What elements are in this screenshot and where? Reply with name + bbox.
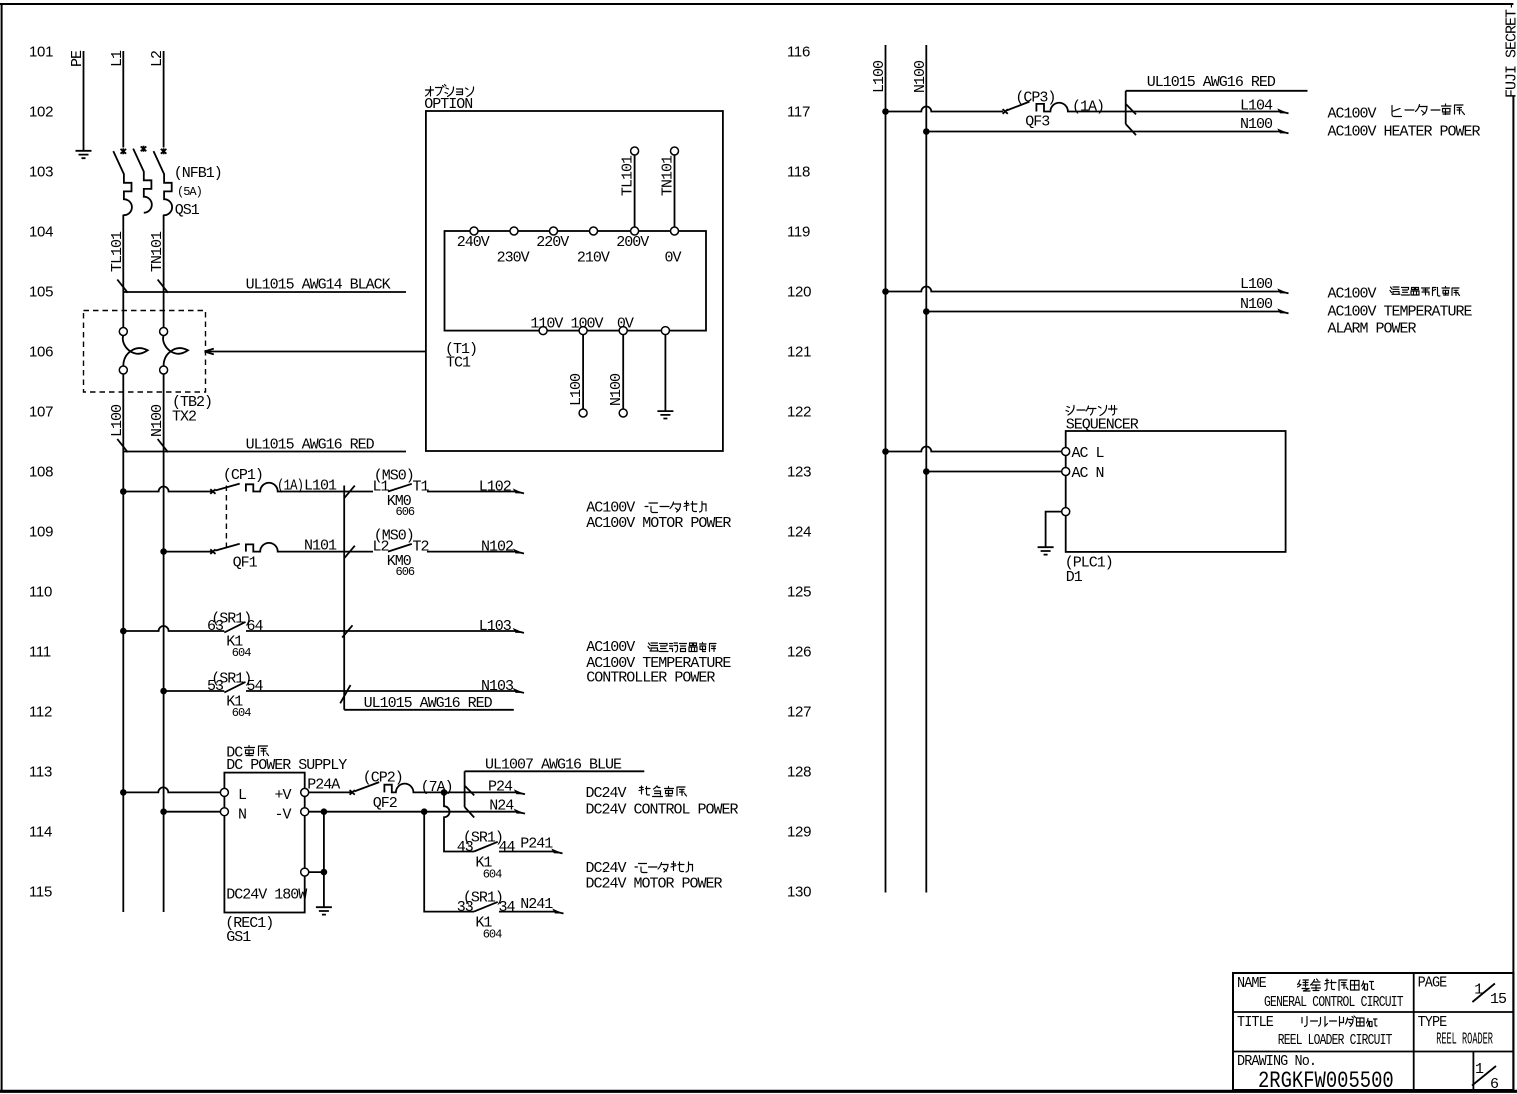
svg-text:102: 102 (29, 104, 53, 121)
svg-text:FUJI SECRET-: FUJI SECRET- (1504, 2, 1517, 98)
wire cable bundle vertical left (343, 486, 345, 710)
wire slash L104 (1126, 104, 1136, 115)
svg-text:UL1015 AWG14 BLACK: UL1015 AWG14 BLACK (246, 277, 391, 294)
svg-text:130: 130 (787, 884, 811, 901)
node line number 123 (787, 464, 811, 481)
wire arrow from option to TB2 (205, 349, 426, 355)
node PE label (69, 50, 86, 67)
node L102 label (479, 479, 511, 496)
svg-text:(CP1): (CP1) (223, 467, 263, 484)
node 240V label (457, 234, 490, 251)
node AC100V MOTOR POWER text (586, 515, 731, 532)
svg-text:P241: P241 (520, 836, 553, 853)
node 606 label row 108 (396, 505, 415, 519)
wire TL101 lead (634, 155, 636, 227)
node OPTION label (424, 96, 472, 113)
terminal block TB2 dashed box (84, 311, 206, 393)
svg-text:UL1015 AWG16 RED: UL1015 AWG16 RED (364, 695, 493, 712)
svg-text:UL1015 AWG16 RED: UL1015 AWG16 RED (246, 437, 375, 454)
node 33 label (457, 899, 474, 916)
wire ground tap lead (664, 335, 666, 411)
svg-text:604: 604 (483, 927, 502, 941)
node AC100V heater power JP text (1328, 104, 1465, 123)
node line number 110 (29, 584, 52, 601)
node TX2 label (172, 409, 196, 426)
svg-text:110V: 110V (530, 315, 563, 332)
node QF3 label (1025, 114, 1050, 131)
svg-text:QF1: QF1 (233, 555, 258, 572)
title block horizontal divider 1 (1233, 1011, 1513, 1013)
node L100 label right (871, 60, 888, 93)
node REEL ROADER label (1436, 1031, 1493, 1050)
svg-text:L102: L102 (479, 479, 511, 496)
node L1 label (373, 479, 390, 496)
node FUJI SECRET marking (1504, 2, 1517, 98)
node line number 119 (787, 224, 810, 241)
svg-text:200V: 200V (616, 234, 649, 251)
svg-text:126: 126 (787, 644, 811, 661)
node line number 113 (29, 764, 52, 781)
node L1 label (109, 50, 126, 67)
node TITLE label (1237, 1014, 1273, 1031)
svg-text:L: L (238, 787, 247, 804)
node TL101 label (109, 231, 126, 272)
node SR1 label 33 (463, 890, 503, 907)
wire slash N24 (465, 807, 475, 818)
node AC100V motor power JP text (586, 500, 706, 517)
node L100 label row 120 (1240, 276, 1273, 293)
sequencer D1 box (1066, 431, 1286, 552)
node arrow N100 row 117 (1277, 128, 1288, 133)
node 43 label (457, 839, 474, 856)
wire L100 left vertical (122, 374, 124, 912)
terminal TC1 230V (510, 227, 518, 235)
svg-text:604: 604 (232, 706, 251, 720)
svg-text:L100: L100 (109, 404, 126, 437)
svg-text:124: 124 (787, 524, 811, 541)
svg-text:GS1: GS1 (226, 929, 251, 946)
node 1A label row 108 (277, 477, 303, 494)
wire L100 alarm branch with hop (886, 287, 1282, 292)
node junction N100 row 123 (923, 468, 930, 475)
node 44 label (499, 839, 516, 856)
node QF1 label (233, 555, 258, 572)
svg-text:N: N (238, 806, 246, 823)
contact MS0 L2-T2 (388, 544, 516, 552)
node line number 102 (29, 104, 53, 121)
node page number 1/15 (1472, 981, 1507, 1008)
terminal GS1 -V (301, 808, 309, 816)
node 0V top label (665, 249, 682, 266)
svg-text:N103: N103 (481, 678, 514, 695)
svg-text:(1A): (1A) (1072, 99, 1104, 116)
node junction L100 row 120 (882, 288, 889, 295)
node K1 label row 111 (226, 634, 243, 651)
node arrow L104 (1277, 108, 1288, 113)
svg-text:240V: 240V (457, 234, 490, 251)
svg-text:AC100V: AC100V (586, 639, 635, 656)
node 604 label 43 (483, 867, 502, 881)
wire cable row 108 (123, 451, 406, 453)
svg-text:P24A: P24A (307, 776, 340, 793)
svg-text:33: 33 (457, 899, 474, 916)
wire slash row 112 bundle (340, 685, 350, 703)
node arrow P24 (514, 789, 525, 794)
node L101 label (304, 478, 337, 495)
node PAGE label (1418, 975, 1447, 992)
node line number 121 (787, 344, 811, 361)
terminal TC1 200V (631, 227, 639, 235)
svg-text:AC100V TEMPERATURE: AC100V TEMPERATURE (1328, 304, 1473, 321)
svg-text:104: 104 (29, 224, 53, 241)
wire slash row 108 bundle (345, 486, 355, 498)
svg-text:108: 108 (29, 464, 53, 481)
ground sequencer (1038, 547, 1054, 554)
ground PE (76, 151, 92, 158)
svg-text:T2: T2 (413, 539, 429, 556)
svg-text:CONTROLLER POWER: CONTROLLER POWER (586, 670, 715, 687)
svg-text:AC N: AC N (1072, 465, 1104, 482)
terminal TC1 ground tap (661, 327, 669, 335)
wire slash marks row 105 (117, 280, 168, 293)
svg-text:TX2: TX2 (172, 409, 196, 426)
terminal GS1 +V (301, 788, 309, 796)
node 230V label (497, 249, 530, 266)
svg-text:120: 120 (787, 284, 811, 301)
svg-text:NAME: NAME (1237, 975, 1266, 992)
node QS1 label (175, 202, 200, 219)
svg-text:604: 604 (232, 646, 251, 660)
node DC24V motor power JP text (586, 860, 693, 877)
node reel loader circuit JP title (1302, 1016, 1377, 1027)
svg-text:N24: N24 (489, 798, 514, 815)
node N24 label (489, 798, 514, 815)
wire N100 to SR1 53 (164, 690, 225, 692)
node line number 106 (29, 344, 53, 361)
node line number 112 (29, 704, 52, 721)
wire slash marks row 108 (117, 439, 168, 452)
node AC100V temperature controller JP text (586, 639, 716, 656)
svg-text:(NFB1): (NFB1) (174, 165, 222, 182)
node line number 129 (787, 824, 811, 841)
node junction P24 branch (441, 789, 448, 796)
node 200V label (616, 234, 649, 251)
node arrow N241 (552, 909, 563, 914)
svg-text:(7A): (7A) (421, 779, 453, 796)
svg-text:L100: L100 (871, 60, 888, 93)
svg-text:QS1: QS1 (175, 202, 200, 219)
wire FG to ground (309, 812, 324, 907)
node AC100V HEATER POWER text (1328, 124, 1481, 141)
svg-text:N100: N100 (912, 60, 929, 93)
node general control circuit JP title (1298, 979, 1375, 991)
node line number 108 (29, 464, 53, 481)
svg-text:UL1015 AWG16 RED: UL1015 AWG16 RED (1147, 74, 1276, 91)
svg-text:114: 114 (29, 824, 52, 841)
title block vertical divider 2 (1472, 1052, 1474, 1091)
svg-text:220V: 220V (536, 234, 569, 251)
svg-text:230V: 230V (497, 249, 530, 266)
svg-text:TYPE: TYPE (1418, 1014, 1447, 1031)
terminal TB2 pole 1 (119, 328, 147, 375)
wire slash P24 (465, 786, 475, 796)
svg-text:P24: P24 (488, 778, 513, 795)
svg-text:122: 122 (787, 404, 811, 421)
node line number 107 (29, 404, 53, 421)
svg-text:63: 63 (207, 618, 224, 635)
node 100V label (571, 315, 604, 332)
svg-text:N101: N101 (304, 538, 337, 555)
svg-text:DC POWER SUPPLY: DC POWER SUPPLY (226, 757, 347, 774)
wire L1 (122, 51, 124, 148)
node N100 label row 117 (1240, 116, 1273, 133)
wire L100 to AC L with hop (886, 447, 1062, 452)
node CP1 label (223, 467, 263, 484)
svg-text:119: 119 (787, 224, 810, 241)
wire N100 lead (622, 335, 624, 409)
node junction L100 row 123 (882, 448, 889, 455)
wire PE (83, 51, 85, 150)
node 64 label (247, 618, 264, 635)
wire slash row 111 bundle (342, 625, 352, 637)
svg-text:L1: L1 (109, 50, 126, 67)
wire P24 down to SR1 43 with hop (444, 792, 474, 851)
node GS1 label (226, 929, 251, 946)
node T1 label (445, 341, 477, 358)
node SEQUENCER label (1066, 417, 1139, 434)
svg-text:43: 43 (457, 839, 474, 856)
svg-text:L101: L101 (304, 478, 337, 495)
node line number 101 (29, 44, 53, 61)
node REEL LOADER CIRCUIT label (1278, 1032, 1393, 1049)
node line number 130 (787, 884, 811, 901)
node K1 label 43 (475, 855, 492, 872)
node CONTROLLER POWER text (586, 670, 715, 687)
node 34 label (499, 899, 516, 916)
svg-text:109: 109 (29, 524, 53, 541)
svg-text:TN101: TN101 (149, 231, 166, 272)
node DRAWING No label (1237, 1053, 1316, 1070)
node TN101 label (149, 231, 166, 272)
svg-text:129: 129 (787, 824, 811, 841)
node P24A label (307, 776, 340, 793)
node arrow L100 row 120 (1277, 288, 1288, 293)
node PLC1 label (1065, 555, 1113, 572)
node line number 114 (29, 824, 52, 841)
wire N100 left vertical (163, 374, 165, 912)
svg-text:(CP3): (CP3) (1015, 89, 1055, 106)
terminal TC1 220V (550, 227, 558, 235)
node -V terminal label (275, 806, 292, 823)
node 110V label (530, 315, 563, 332)
node MS0 label row 109 (374, 528, 414, 545)
svg-text:+V: +V (275, 787, 292, 804)
wire slash N100 row 117 (1126, 124, 1136, 135)
terminal GS1 N (220, 808, 228, 816)
svg-text:DC24V: DC24V (586, 860, 627, 877)
breaker QS1 pole 1 terminal star (121, 148, 127, 154)
wire N100 to N terminal (164, 811, 221, 813)
wire L100 to CP1 with hop (123, 487, 212, 492)
node +V terminal label (275, 787, 292, 804)
svg-text:ALARM POWER: ALARM POWER (1328, 321, 1417, 338)
terminal TN101 top (671, 147, 679, 155)
svg-text:116: 116 (787, 44, 810, 61)
terminal TB2 pole 2 (160, 328, 188, 375)
svg-text:N100: N100 (149, 404, 166, 437)
breaker QS1 pole 1 blade and body (113, 151, 132, 287)
node N103 label (481, 678, 514, 695)
node DC POWER SUPPLY label (226, 757, 347, 774)
terminal L100 lead end (579, 409, 587, 417)
svg-text:T1: T1 (413, 479, 430, 496)
svg-text:DC24V MOTOR POWER: DC24V MOTOR POWER (586, 876, 723, 893)
wire sequencer FG to ground (1046, 512, 1062, 547)
wire TL101 (122, 287, 124, 327)
node line number 103 (29, 164, 53, 181)
node junction N241 branch (421, 808, 428, 815)
node P24 label (488, 778, 513, 795)
node UL1015 AWG16 RED label lower (364, 695, 493, 712)
svg-text:110: 110 (29, 584, 52, 601)
svg-text:606: 606 (396, 505, 415, 519)
node N100 label left (149, 404, 166, 437)
node L2 label (373, 539, 389, 556)
wire L100 lead (582, 335, 584, 409)
node UL1015 AWG16 RED label right (1147, 74, 1276, 91)
mechanical link CP1-QF1 dashed (225, 486, 227, 550)
svg-text:TC1: TC1 (446, 355, 471, 372)
node junction N100 row 117 (923, 128, 930, 135)
wire cable bracket vertical right (1125, 91, 1127, 124)
node 54 label (247, 678, 264, 695)
node L2 label (149, 51, 166, 67)
node AC N label (1072, 465, 1104, 482)
contact SR1 33-34 (474, 902, 555, 912)
node T2 label (413, 539, 429, 556)
node SR1 label row 112 (211, 670, 251, 687)
node line number 122 (787, 404, 811, 421)
node TN101 label option (660, 155, 677, 196)
wire L100 right vertical (885, 45, 887, 893)
node arrow N103 (513, 688, 524, 693)
node L104 label (1240, 98, 1273, 115)
wire cable bracket vertical BLUE (464, 771, 466, 807)
node junction L100 row 111 (120, 628, 127, 635)
wire N24 line (309, 811, 516, 813)
svg-text:606: 606 (396, 565, 415, 579)
node 604 label 33 (483, 927, 502, 941)
contact SR1 63-64 (224, 622, 516, 633)
node junction L100 row 117 (882, 108, 889, 115)
node line number 127 (787, 704, 811, 721)
node TYPE label (1418, 1014, 1447, 1031)
node line number 111 (29, 644, 51, 661)
transformer TC1 box (445, 231, 707, 331)
breaker CP1 (210, 483, 373, 494)
svg-text:AC100V MOTOR POWER: AC100V MOTOR POWER (586, 515, 731, 532)
node line number 109 (29, 524, 53, 541)
terminal TC1 0V bottom (619, 327, 627, 335)
wire L2 (163, 51, 165, 148)
node junction N100 row 113 (160, 808, 167, 815)
node line number 124 (787, 524, 811, 541)
wire N24 down to SR1 33 (424, 812, 474, 912)
node arrow L103 (513, 628, 524, 633)
svg-text:118: 118 (787, 164, 810, 181)
svg-text:DC24V CONTROL POWER: DC24V CONTROL POWER (586, 802, 739, 819)
node line number 105 (29, 284, 53, 301)
node AC L label (1072, 445, 1105, 462)
wire L100 to CP3 with hop (886, 107, 1004, 112)
svg-text:L100: L100 (1240, 276, 1273, 293)
breaker CP3 (1003, 102, 1281, 114)
ground GS1 FG (316, 907, 332, 914)
svg-text:113: 113 (29, 764, 52, 781)
terminal TC1 210V (590, 227, 598, 235)
node L103 label (479, 618, 512, 635)
terminal TC1 100V (579, 327, 587, 335)
svg-text:QF3: QF3 (1025, 114, 1050, 131)
svg-text:125: 125 (787, 584, 811, 601)
node 5A label (177, 185, 202, 199)
node arrow N100 row 120 (1277, 308, 1288, 313)
svg-text:DC24V: DC24V (586, 785, 627, 802)
node NAME label (1237, 975, 1266, 992)
node junction N100 row 112 (160, 688, 167, 695)
node line number 128 (787, 764, 811, 781)
node P241 label (520, 836, 553, 853)
node 604 label row 112 (232, 706, 251, 720)
option box (426, 111, 723, 451)
svg-text:112: 112 (29, 704, 52, 721)
contact SR1 53-54 (224, 682, 516, 693)
svg-text:103: 103 (29, 164, 53, 181)
terminal TC1 240V (470, 227, 478, 235)
svg-text:TL101: TL101 (620, 155, 637, 196)
node 210V label (577, 249, 610, 266)
wire N100 alarm branch (926, 311, 1281, 313)
node option JP label (426, 85, 474, 97)
power supply GS1 box (224, 773, 304, 913)
node line number 104 (29, 224, 53, 241)
node junction N100 row 120 (923, 308, 930, 315)
node N100 label right (912, 60, 929, 93)
svg-text:15: 15 (1490, 991, 1507, 1008)
node 63 label (207, 618, 224, 635)
svg-text:AC100V HEATER POWER: AC100V HEATER POWER (1328, 124, 1481, 141)
svg-text:TITLE: TITLE (1237, 1014, 1273, 1031)
node T1 label (413, 479, 430, 496)
node TL101 label option (620, 155, 637, 196)
svg-text:44: 44 (499, 839, 516, 856)
node DC24V MOTOR POWER text (586, 876, 723, 893)
svg-text:121: 121 (787, 344, 811, 361)
svg-text:PAGE: PAGE (1418, 975, 1447, 992)
terminal TC1 0V top (671, 227, 679, 235)
node KM0 label row 109 (387, 553, 412, 570)
svg-text:L104: L104 (1240, 98, 1273, 115)
svg-text:N100: N100 (608, 373, 625, 406)
node AC100V temperature alarm JP text (1328, 286, 1460, 303)
terminal TL101 top (631, 147, 639, 155)
svg-text:TL101: TL101 (109, 231, 126, 272)
svg-text:(MS0): (MS0) (374, 468, 414, 485)
node drawing number 2RGKFW005500 (1258, 1068, 1394, 1094)
breaker CP2 (309, 782, 516, 795)
wire cable underline BLUE (465, 770, 645, 772)
node N241 label (520, 896, 553, 913)
